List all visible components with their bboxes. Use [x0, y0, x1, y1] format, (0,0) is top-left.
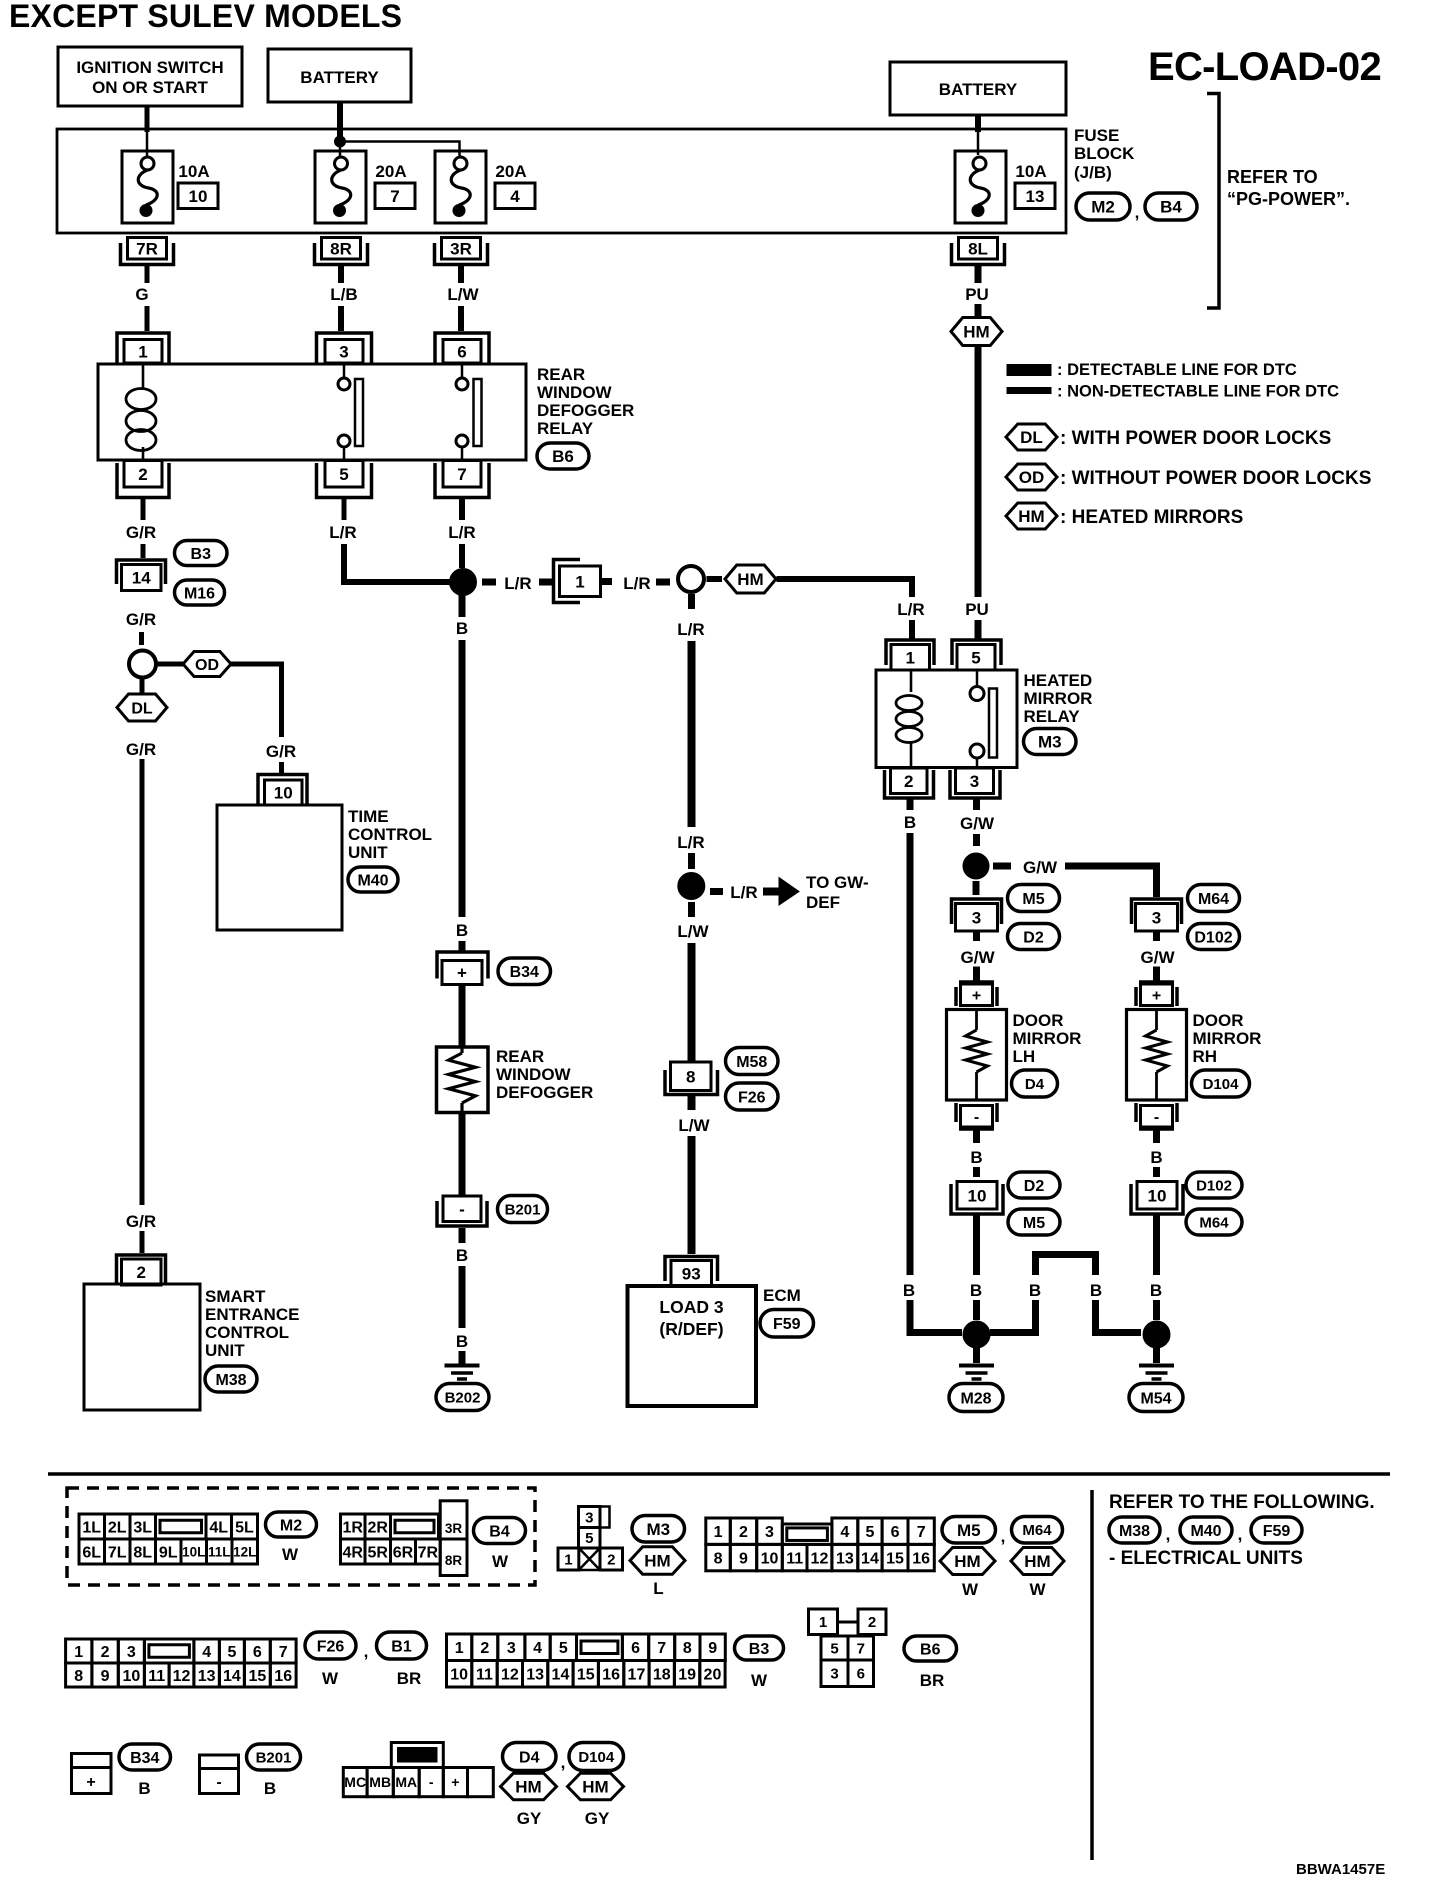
connector ref D2	[1008, 924, 1060, 950]
relay M3 pin 3 connector	[956, 768, 994, 794]
connector ref B34	[498, 958, 551, 985]
svg-text:2: 2	[868, 1614, 876, 1631]
svg-text:BLOCK: BLOCK	[1074, 144, 1135, 163]
connector ref M58	[726, 1048, 779, 1075]
wire B below pin 7	[459, 498, 465, 521]
connector ref F26 bottom	[305, 1632, 356, 1659]
connector ref F26	[726, 1083, 779, 1110]
svg-text:F59: F59	[1263, 1523, 1291, 1540]
svg-text:6: 6	[857, 1666, 865, 1683]
svg-text:,: ,	[364, 1642, 369, 1661]
svg-text:B3: B3	[191, 546, 212, 563]
svg-text:REFER TO: REFER TO	[1227, 167, 1318, 187]
svg-text:14: 14	[132, 569, 151, 588]
svg-text:7: 7	[857, 1640, 865, 1657]
relay B6 pin 3 connector	[317, 333, 372, 363]
fuse 10A [13]	[955, 151, 1006, 223]
dash right of G/W dot	[993, 863, 1011, 870]
svg-text:B4: B4	[1160, 198, 1182, 217]
option HM under M3	[630, 1547, 685, 1575]
svg-text:1R: 1R	[343, 1519, 364, 1536]
svg-text:B: B	[1090, 1281, 1102, 1300]
svg-text:L/R: L/R	[730, 883, 757, 902]
wire B RH mirror to ground	[1153, 1214, 1160, 1275]
svg-text:M28: M28	[960, 1390, 991, 1407]
junction dot L/R-B	[450, 569, 477, 596]
svg-text:M5: M5	[1022, 891, 1044, 908]
svg-text:2: 2	[137, 1263, 146, 1282]
ground B202	[445, 1364, 480, 1368]
svg-text:GY: GY	[585, 1809, 610, 1828]
connector 8	[665, 1070, 718, 1095]
junction circle G/R	[129, 651, 156, 678]
svg-text:RH: RH	[1193, 1047, 1218, 1066]
smart entrance control unit box	[84, 1284, 200, 1410]
svg-text:16: 16	[912, 1550, 930, 1567]
svg-text:LOAD 3: LOAD 3	[659, 1297, 723, 1317]
svg-text:CONTROL: CONTROL	[205, 1323, 289, 1342]
svg-text:TO GW-: TO GW-	[806, 873, 869, 892]
svg-text:B3: B3	[749, 1641, 770, 1658]
svg-text:TIME: TIME	[348, 807, 389, 826]
wire G/W dash below pin 3	[973, 799, 980, 810]
svg-text:10A: 10A	[1015, 162, 1046, 181]
svg-text:M3: M3	[1038, 733, 1062, 752]
svg-text:B: B	[456, 1246, 468, 1265]
svg-text:6: 6	[891, 1524, 900, 1541]
connector ref M40	[348, 867, 398, 892]
connector 10 TCU	[258, 775, 307, 805]
wire G/W into mirror RH	[1153, 931, 1160, 943]
svg-text:14: 14	[552, 1667, 570, 1684]
option symbol HM on L/R wire	[725, 565, 776, 593]
svg-text:5: 5	[227, 1644, 236, 1661]
svg-text:DOOR: DOOR	[1013, 1011, 1064, 1030]
svg-text:3: 3	[830, 1666, 838, 1683]
svg-text:10: 10	[122, 1668, 140, 1685]
pinout D4 raised box	[391, 1743, 443, 1768]
ground ref M28	[949, 1384, 1003, 1412]
svg-text:-: -	[974, 1109, 979, 1126]
svg-text:-: -	[459, 1200, 465, 1219]
svg-text:: WITH POWER DOOR LOCKS: : WITH POWER DOOR LOCKS	[1060, 428, 1331, 449]
svg-text:D104: D104	[578, 1749, 615, 1766]
svg-text:10A: 10A	[178, 162, 209, 181]
svg-text:(J/B): (J/B)	[1074, 163, 1112, 182]
relay B6 pin 5 connector	[325, 461, 363, 488]
svg-text:3: 3	[507, 1640, 516, 1657]
svg-text:MIRROR: MIRROR	[1013, 1029, 1082, 1048]
svg-text:8: 8	[683, 1640, 692, 1657]
relay B6 contact pin6-7	[461, 363, 464, 378]
svg-text:2: 2	[101, 1644, 110, 1661]
svg-text:M54: M54	[1140, 1390, 1171, 1407]
connector ref D4 bottom	[503, 1743, 557, 1771]
connector ref B6	[537, 443, 589, 469]
pinout grid M2	[79, 1514, 105, 1539]
svg-text:DEFOGGER: DEFOGGER	[537, 401, 634, 420]
svg-text:+: +	[972, 988, 981, 1005]
relay M3 pin 1 connector	[886, 640, 934, 665]
svg-text:M5: M5	[957, 1521, 981, 1540]
svg-text:11: 11	[148, 1668, 165, 1685]
svg-text:2: 2	[739, 1524, 748, 1541]
wire B34 to defogger	[459, 985, 466, 1048]
option HM under D104	[568, 1773, 624, 1800]
connector - mirror RH	[1141, 1106, 1173, 1128]
svg-text:DEF: DEF	[806, 893, 840, 912]
svg-text:L: L	[653, 1579, 663, 1598]
svg-text:HM: HM	[1024, 1552, 1050, 1571]
svg-text:M2: M2	[280, 1517, 302, 1534]
svg-text:13: 13	[836, 1550, 854, 1567]
svg-text:EXCEPT SULEV MODELS: EXCEPT SULEV MODELS	[9, 0, 402, 34]
svg-text:B: B	[970, 1281, 982, 1300]
fuse block strip J/B	[57, 129, 1066, 233]
svg-text:4R: 4R	[343, 1544, 364, 1561]
ground M28	[973, 1348, 980, 1363]
bridge right leg to M54	[1096, 1300, 1142, 1333]
svg-text:20: 20	[704, 1667, 722, 1684]
wire G/W below dot	[973, 881, 980, 897]
link to HM	[707, 576, 723, 582]
svg-text:MIRROR: MIRROR	[1024, 689, 1093, 708]
svg-text:3: 3	[127, 1644, 136, 1661]
svg-text:L/R: L/R	[677, 620, 704, 639]
door mirror RH resistor	[1155, 1010, 1158, 1031]
svg-text:15: 15	[886, 1550, 904, 1567]
svg-text:-: -	[429, 1774, 434, 1790]
svg-text:G/W: G/W	[1023, 858, 1058, 877]
svg-text:REFER TO THE FOLLOWING.: REFER TO THE FOLLOWING.	[1109, 1492, 1375, 1513]
svg-text:(R/DEF): (R/DEF)	[659, 1319, 723, 1339]
svg-text:7R: 7R	[418, 1544, 439, 1561]
junction dot G/W	[963, 853, 989, 879]
svg-text:B201: B201	[256, 1749, 292, 1766]
relay B6 pin 1 connector	[117, 333, 169, 363]
svg-text:RELAY: RELAY	[537, 419, 594, 438]
svg-text:20A: 20A	[375, 162, 406, 181]
connector ref M2	[1076, 193, 1130, 220]
svg-text:5: 5	[585, 1530, 593, 1547]
svg-text:B201: B201	[505, 1201, 541, 1218]
wire PU segment	[975, 266, 982, 283]
svg-text:3: 3	[1152, 908, 1161, 927]
svg-text:2: 2	[138, 465, 147, 484]
svg-text:3R: 3R	[445, 1521, 463, 1536]
wire B from relay M3	[907, 798, 914, 811]
svg-text:M58: M58	[736, 1054, 767, 1071]
svg-text:L/R: L/R	[504, 574, 531, 593]
arrow TO GW-DEF	[763, 888, 780, 896]
svg-text:10: 10	[968, 1186, 987, 1205]
connector ref M64 bottom	[1012, 1517, 1063, 1544]
svg-text:2: 2	[607, 1551, 615, 1568]
svg-text:8: 8	[74, 1668, 83, 1685]
relay B6 coil	[142, 364, 145, 390]
svg-text:FUSE: FUSE	[1074, 126, 1119, 145]
connector ref F59	[760, 1310, 814, 1338]
svg-text:10: 10	[450, 1667, 468, 1684]
svg-text:8L: 8L	[968, 239, 988, 258]
door mirror RH box	[1127, 1010, 1187, 1101]
connector ref M40 note	[1180, 1517, 1232, 1543]
svg-text:HM: HM	[582, 1778, 608, 1797]
svg-text:11L: 11L	[208, 1544, 231, 1559]
svg-text:L/W: L/W	[447, 285, 479, 304]
jumper wire junction to fuse 4	[345, 142, 460, 158]
svg-text:IGNITION SWITCH: IGNITION SWITCH	[76, 58, 223, 77]
connector 8R	[315, 243, 368, 265]
option HM under D4	[501, 1773, 557, 1800]
connector 2 SECU	[117, 1255, 166, 1285]
svg-text:- ELECTRICAL UNITS: - ELECTRICAL UNITS	[1109, 1548, 1303, 1569]
connector 8L	[952, 243, 1005, 265]
svg-text:G/R: G/R	[126, 523, 156, 542]
connector ref M64	[1186, 1209, 1242, 1235]
connector 1 inline	[554, 560, 581, 603]
svg-text:1: 1	[564, 1551, 572, 1568]
legend OD symbol	[1006, 464, 1057, 490]
rear window defogger box	[437, 1047, 489, 1113]
svg-text:DEFOGGER: DEFOGGER	[496, 1083, 593, 1102]
pinout B201 bottom	[200, 1755, 239, 1794]
svg-text:: DETECTABLE LINE FOR DTC: : DETECTABLE LINE FOR DTC	[1057, 361, 1297, 379]
svg-text:MB: MB	[369, 1774, 391, 1790]
svg-text:W: W	[492, 1552, 509, 1571]
svg-text:B: B	[456, 1332, 468, 1351]
battery box left	[268, 49, 411, 102]
wire L/W segment	[458, 266, 464, 283]
svg-text:“PG-POWER”.: “PG-POWER”.	[1227, 189, 1350, 209]
connector ref B6 bottom	[904, 1636, 957, 1661]
battery box right	[890, 62, 1066, 115]
svg-text:L/R: L/R	[677, 833, 704, 852]
wire B below mirror LH	[973, 1129, 980, 1143]
svg-text:1: 1	[819, 1614, 827, 1631]
connector ref B201 bottom	[247, 1744, 301, 1770]
svg-text:12: 12	[811, 1550, 829, 1567]
svg-text:10: 10	[761, 1550, 779, 1567]
connector 3 M64-D102	[1132, 899, 1182, 924]
relay B6 pin 7 connector	[443, 461, 481, 488]
pinout B34 bottom	[72, 1754, 112, 1794]
option HM under M64	[1011, 1548, 1064, 1575]
svg-text:1L: 1L	[82, 1519, 101, 1536]
svg-text:OD: OD	[1019, 468, 1045, 487]
connector - B201	[443, 1196, 481, 1222]
pinout grid M5/M64	[706, 1518, 731, 1544]
relay B6 pin 2 connector	[124, 461, 162, 488]
connector ref M5	[1008, 885, 1060, 912]
svg-text:,: ,	[1238, 1525, 1243, 1544]
svg-text:M64: M64	[1199, 1214, 1229, 1231]
connector ref D2	[1008, 1172, 1060, 1198]
svg-text:W: W	[1029, 1580, 1046, 1599]
svg-text:9L: 9L	[159, 1544, 178, 1561]
svg-text:12L: 12L	[233, 1544, 256, 1559]
svg-text:4: 4	[533, 1640, 542, 1657]
fuse 20A [4]	[435, 151, 486, 223]
wire L/B segment	[338, 266, 344, 283]
svg-text:GY: GY	[517, 1809, 542, 1828]
svg-text:3: 3	[765, 1524, 774, 1541]
svg-text:M3: M3	[646, 1520, 670, 1539]
wire L/W below dot	[688, 902, 695, 917]
svg-text:-: -	[1154, 1109, 1159, 1126]
svg-text:2R: 2R	[368, 1519, 389, 1536]
svg-text:B202: B202	[445, 1389, 481, 1406]
svg-text:W: W	[322, 1669, 339, 1688]
connector + mirror LH	[959, 980, 994, 984]
svg-text:2: 2	[904, 772, 913, 791]
svg-text:,: ,	[1001, 1527, 1006, 1546]
wire below B201	[459, 1228, 466, 1243]
svg-text:D4: D4	[519, 1749, 540, 1766]
svg-text:2L: 2L	[108, 1519, 127, 1536]
svg-text:DL: DL	[131, 700, 153, 717]
svg-text:HEATED: HEATED	[1024, 671, 1093, 690]
svg-text:4L: 4L	[209, 1519, 228, 1536]
svg-text:6R: 6R	[393, 1544, 414, 1561]
connector ref M5 bottom	[942, 1517, 996, 1544]
svg-text:+: +	[86, 1774, 95, 1791]
wire battery to junction	[337, 102, 343, 137]
wire G/R long run	[140, 759, 145, 1205]
connector 10 LH	[957, 1182, 997, 1210]
pinout D4/D104 strip	[343, 1768, 367, 1797]
svg-text:7R: 7R	[136, 239, 158, 258]
connector ref M16	[175, 580, 225, 605]
svg-text:4: 4	[840, 1524, 849, 1541]
svg-text:DL: DL	[1020, 428, 1043, 447]
svg-text:5: 5	[830, 1640, 838, 1657]
connector ref M3	[1024, 729, 1077, 755]
connector ref B4	[1145, 193, 1197, 220]
svg-text:L/R: L/R	[623, 574, 650, 593]
connector 93 ECM	[665, 1257, 718, 1282]
legend thick bar	[1007, 365, 1051, 376]
svg-text:B34: B34	[130, 1750, 159, 1767]
svg-text:M16: M16	[184, 585, 215, 602]
svg-text:3: 3	[339, 342, 348, 361]
svg-text:9: 9	[739, 1550, 748, 1567]
svg-text:WINDOW: WINDOW	[537, 383, 613, 402]
svg-text:BATTERY: BATTERY	[300, 68, 379, 87]
svg-text:M40: M40	[357, 872, 388, 889]
svg-text:+: +	[451, 1774, 459, 1790]
svg-text:B1: B1	[391, 1638, 412, 1655]
svg-text:M38: M38	[215, 1372, 246, 1389]
svg-text:MIRROR: MIRROR	[1193, 1029, 1262, 1048]
connector 10 RH	[1137, 1182, 1177, 1210]
svg-text:1: 1	[455, 1640, 464, 1657]
connector ref D102	[1188, 924, 1240, 950]
wire B corner to ground M28	[910, 1300, 962, 1333]
svg-text:ENTRANCE: ENTRANCE	[205, 1305, 299, 1324]
svg-text:10L: 10L	[182, 1544, 205, 1559]
relay B6 contact pin3-5	[343, 363, 346, 378]
svg-text:,: ,	[1166, 1525, 1171, 1544]
svg-text:6: 6	[631, 1640, 640, 1657]
relay M3 contact	[976, 670, 979, 687]
svg-text:8R: 8R	[445, 1553, 463, 1568]
connector 3 M5-D2	[952, 899, 1002, 924]
svg-text:16: 16	[602, 1667, 620, 1684]
rear window defogger resistor	[460, 1047, 463, 1053]
wire HM to relay M3 pin 1	[777, 579, 913, 597]
relay M3 coil	[910, 670, 913, 692]
svg-text:HM: HM	[737, 570, 763, 589]
svg-text:10: 10	[1148, 1186, 1167, 1205]
connector ref M38	[205, 1366, 257, 1392]
wire G/R below pin 2	[141, 498, 146, 521]
wire circle to DL	[140, 678, 145, 694]
svg-text:UNIT: UNIT	[348, 843, 388, 862]
svg-text:5: 5	[559, 1640, 568, 1657]
wire below connector 8	[688, 1096, 696, 1110]
svg-text:14: 14	[223, 1668, 241, 1685]
svg-text:,: ,	[561, 1753, 566, 1772]
wire G/W into mirror LH	[973, 931, 980, 943]
ignition switch box	[58, 47, 242, 106]
svg-text:PU: PU	[965, 600, 989, 619]
svg-text:M2: M2	[1091, 198, 1115, 217]
svg-text:20A: 20A	[495, 162, 526, 181]
svg-text:F26: F26	[317, 1638, 345, 1655]
junction dot M28	[963, 1321, 990, 1348]
svg-text:1: 1	[714, 1524, 723, 1541]
wire B below mirror RH	[1153, 1129, 1160, 1143]
svg-text:5R: 5R	[368, 1544, 389, 1561]
legend thin bar	[1007, 388, 1051, 394]
svg-text:OD: OD	[195, 657, 219, 674]
connector ref M38 note	[1109, 1517, 1160, 1543]
connector 7R	[121, 243, 174, 265]
svg-text:B: B	[456, 921, 468, 940]
svg-text:14: 14	[861, 1550, 879, 1567]
connector ref B1 bottom	[377, 1632, 427, 1659]
option HM under M5	[940, 1548, 995, 1575]
junction dot M54	[1143, 1321, 1170, 1348]
svg-text:10: 10	[274, 784, 293, 803]
wire L/R below pin 5	[342, 498, 347, 521]
svg-text:B4: B4	[489, 1523, 510, 1540]
svg-text:M64: M64	[1198, 891, 1229, 908]
svg-text:12: 12	[173, 1668, 191, 1685]
connector - mirror LH	[961, 1106, 993, 1128]
svg-text:16: 16	[274, 1668, 292, 1685]
svg-text:W: W	[751, 1671, 768, 1690]
svg-text:6L: 6L	[82, 1544, 101, 1561]
svg-text:M64: M64	[1022, 1522, 1052, 1539]
junction dot L/R-L/W	[678, 873, 705, 900]
connector ref D4	[1012, 1070, 1058, 1097]
wire PU to heated mirror relay	[975, 346, 982, 597]
svg-text:LH: LH	[1013, 1047, 1036, 1066]
svg-text:WINDOW: WINDOW	[496, 1065, 572, 1084]
fuse 10A [10]	[122, 151, 173, 223]
svg-text:G/W: G/W	[1141, 948, 1176, 967]
svg-text:12: 12	[501, 1667, 519, 1684]
connector 3R	[435, 243, 488, 265]
pinout B4 tall column	[440, 1501, 467, 1576]
svg-text:D102: D102	[1194, 929, 1232, 946]
svg-text:L/W: L/W	[678, 1116, 710, 1135]
svg-text:HM: HM	[515, 1778, 541, 1797]
svg-text:MC: MC	[344, 1774, 366, 1790]
svg-text:B6: B6	[552, 447, 574, 466]
